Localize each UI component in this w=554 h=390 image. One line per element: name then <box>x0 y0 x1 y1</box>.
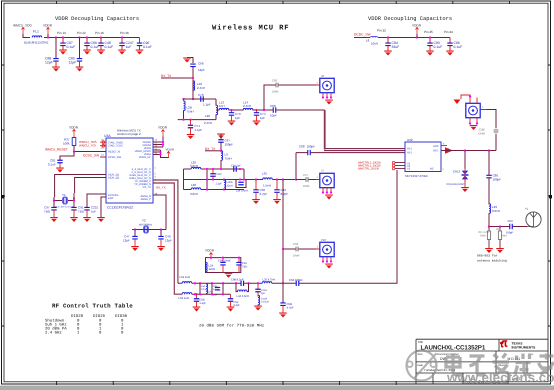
TI logo <box>500 340 508 347</box>
svg-text:1nH: 1nH <box>219 104 225 108</box>
inductor L35B <box>262 282 272 284</box>
svg-text:Pin 22: Pin 22 <box>77 31 86 35</box>
wire TX pair from MCU down <box>153 180 182 294</box>
capacitor C97 <box>53 201 55 208</box>
ground <box>325 264 333 269</box>
svg-text:100k: 100k <box>63 142 70 146</box>
svg-text:VDDR: VDDR <box>43 24 53 28</box>
ground <box>253 121 261 126</box>
crystal Y1 <box>54 197 74 201</box>
svg-text:DNM: DNM <box>272 90 279 94</box>
svg-text:Pin 26: Pin 26 <box>120 31 129 35</box>
svg-text:L35: L35 <box>262 172 267 176</box>
capacitor C30 shunt <box>255 178 257 180</box>
svg-text:2.2pF: 2.2pF <box>216 183 223 186</box>
node junction J6 branch <box>263 109 265 111</box>
wire <box>192 67 194 99</box>
capacitor C84 <box>387 38 389 44</box>
svg-text:Y2: Y2 <box>142 219 146 223</box>
svg-text:L28: L28 <box>191 183 196 187</box>
capacitor C48 <box>100 38 102 44</box>
wire reset net <box>74 146 106 152</box>
svg-text:L20: L20 <box>205 114 210 118</box>
inductor L13 <box>219 108 229 110</box>
wire to J7 <box>296 179 316 181</box>
capacitor C73 shunt <box>230 109 232 111</box>
svg-text:10uH: 10uH <box>371 42 378 46</box>
svg-text:2R2: 2R2 <box>496 228 501 231</box>
node junctions on 2.4G row <box>182 98 184 100</box>
svg-text:12pF: 12pF <box>198 68 205 72</box>
node junction <box>429 36 431 38</box>
capacitor C91 <box>71 207 76 210</box>
svg-text:100pF: 100pF <box>225 143 234 147</box>
ground <box>56 168 64 173</box>
svg-text:VDDR Decoupling Capacitors: VDDR Decoupling Capacitors <box>55 16 139 22</box>
inductor L35 <box>263 178 273 181</box>
svg-text:RF Control Truth Table: RF Control Truth Table <box>52 303 133 310</box>
svg-text:RX_TX: RX_TX <box>156 185 166 189</box>
svg-text:FL1: FL1 <box>33 30 39 34</box>
ground <box>187 134 195 139</box>
svg-text:0.1uF: 0.1uF <box>434 45 443 49</box>
wire sub1 mid vertical <box>206 169 208 190</box>
svg-text:0.1uF: 0.1uF <box>454 45 463 49</box>
svg-text:Y1: Y1 <box>62 193 66 197</box>
TVS diode CR13 <box>464 151 466 171</box>
svg-text:C70: C70 <box>198 93 204 97</box>
svg-text:Pin 16: Pin 16 <box>95 31 104 35</box>
svg-text:Document Number: Document Number <box>437 353 459 356</box>
svg-text:4pF: 4pF <box>261 292 266 295</box>
svg-text:100pF: 100pF <box>307 145 316 149</box>
off-page RFC arrow <box>445 147 453 154</box>
bottom gray scan strip <box>0 386 554 390</box>
ground <box>279 313 287 318</box>
svg-text:DIO28: DIO28 <box>71 314 84 319</box>
inductor L34 <box>238 290 248 292</box>
connector J5 SMA <box>481 109 487 111</box>
capacitor C92B shunt <box>230 294 232 299</box>
svg-text:1.1pF: 1.1pF <box>195 128 203 132</box>
title block outline <box>416 339 548 384</box>
ground <box>485 248 493 253</box>
svg-text:L31 1uH: L31 1uH <box>180 275 191 279</box>
frame tick marks top <box>57 1 510 4</box>
svg-text:L31 1uH: L31 1uH <box>179 296 190 300</box>
svg-text:LAUNCHXL-CC1352P1: LAUNCHXL-CC1352P1 <box>421 345 486 352</box>
inductor L10 <box>192 78 194 81</box>
wire right edge <box>243 169 245 180</box>
svg-text:12nH: 12nH <box>209 267 216 271</box>
inductor FL1 <box>32 36 42 38</box>
svg-text:100pF: 100pF <box>493 178 502 182</box>
svg-text:DCDC_SW: DCDC_SW <box>83 153 99 157</box>
svg-text:0.15uH: 0.15uH <box>261 301 269 304</box>
svg-text:10pF: 10pF <box>270 114 277 118</box>
pin stubs J5 top <box>461 95 477 103</box>
svg-text:C59: C59 <box>508 219 514 223</box>
svg-text:section on page 2: section on page 2 <box>117 132 141 136</box>
svg-text:1uF: 1uF <box>126 45 132 49</box>
svg-text:3.6nH: 3.6nH <box>190 192 198 196</box>
svg-text:Pin 33: Pin 33 <box>377 29 386 33</box>
svg-text:WMCU_TCK: WMCU_TCK <box>79 144 96 148</box>
ground <box>83 50 91 55</box>
svg-text:DCDC_SW: DCDC_SW <box>354 33 372 37</box>
ground <box>426 51 434 56</box>
wire PA cell box edges <box>200 283 223 294</box>
svg-text:C57: C57 <box>303 173 309 177</box>
watermark chinese characters <box>446 354 554 376</box>
svg-text:V1: V1 <box>407 168 411 171</box>
svg-text:48.000MHz: 48.000MHz <box>139 224 153 227</box>
pin stub HOP <box>441 145 447 147</box>
capacitor C67 <box>218 140 223 143</box>
svg-text:C66: C66 <box>198 62 204 66</box>
wire down to sub1 row <box>295 153 297 180</box>
capacitor C247 <box>121 38 123 44</box>
svg-text:75nH: 75nH <box>187 110 194 114</box>
capacitor C74 shunt <box>255 109 257 111</box>
svg-text:Pin 45: Pin 45 <box>424 30 433 34</box>
svg-text:1uF: 1uF <box>91 210 96 214</box>
capacitor C57 DNM <box>306 177 308 182</box>
svg-text:DNM: DNM <box>303 184 310 188</box>
svg-text:1.1pF: 1.1pF <box>203 103 211 107</box>
svg-text:VDDR: VDDR <box>205 249 215 253</box>
svg-text:12pF: 12pF <box>45 61 53 65</box>
capacitor C85 <box>79 38 81 59</box>
svg-text:1pF: 1pF <box>235 116 240 120</box>
svg-text:2.7pF: 2.7pF <box>260 192 268 196</box>
svg-text:12pF: 12pF <box>69 61 77 65</box>
connector J7 SMA <box>316 179 320 181</box>
svg-text:0.1uF: 0.1uF <box>67 45 76 49</box>
ground <box>59 50 67 55</box>
node junction PA out <box>282 282 284 284</box>
wire DCOUPL <box>87 194 106 207</box>
resistor R21 DNM <box>488 227 490 232</box>
node junctions on bus <box>47 36 49 38</box>
inductor L24 on left edge <box>206 262 208 272</box>
svg-text:27nH: 27nH <box>201 288 207 291</box>
svg-text:Title: Title <box>418 340 424 344</box>
wire RFC to antenna net <box>441 150 496 152</box>
svg-text:Date: Date <box>418 364 424 367</box>
svg-text:P10: P10 <box>321 238 326 242</box>
svg-text:VDDR_RF: VDDR_RF <box>139 156 152 159</box>
ground <box>470 125 478 130</box>
node junction <box>192 77 194 79</box>
ground small left <box>454 100 461 105</box>
svg-text:SKY13317-373LF: SKY13317-373LF <box>405 174 428 178</box>
svg-text:L35 4.7nH: L35 4.7nH <box>263 279 275 282</box>
node junction <box>387 36 389 38</box>
capacitor C47 <box>134 230 136 237</box>
capacitor C66 <box>190 64 195 67</box>
capacitor C58 DNM <box>296 247 298 252</box>
capacitor C81 <box>57 160 62 163</box>
ground <box>157 246 165 251</box>
svg-text:4.7pF: 4.7pF <box>287 306 294 310</box>
ground <box>193 307 201 312</box>
capacitor C221 <box>84 207 89 210</box>
svg-text:J6: J6 <box>321 74 324 78</box>
svg-text:L34 3.6nH: L34 3.6nH <box>236 190 248 193</box>
wire C88 row <box>296 152 405 154</box>
capacitor C8B shunt <box>195 293 197 295</box>
wire to P10 <box>283 248 316 250</box>
wire X32K_Q2 <box>75 178 106 194</box>
svg-text:WMCTRL_DIO30: WMCTRL_DIO30 <box>358 168 380 171</box>
inductor L2B vertical <box>183 99 185 101</box>
svg-text:2.4 GHz: 2.4 GHz <box>45 331 62 336</box>
svg-text:2.4nH: 2.4nH <box>243 104 251 108</box>
pin stubs P10 <box>323 257 331 262</box>
wire sub1 row1 <box>184 168 245 170</box>
wire sub1 row2 <box>184 179 297 181</box>
capacitor C4B DNM <box>494 130 499 132</box>
ground <box>70 217 78 222</box>
capacitor C71 below rail <box>182 118 184 120</box>
svg-text:2.4nH: 2.4nH <box>204 121 212 125</box>
capacitor C68 series <box>273 107 276 112</box>
svg-text:20 dBm SOM for 770-930 MHz: 20 dBm SOM for 770-930 MHz <box>199 323 265 328</box>
svg-text:Wireless MCU RF: Wireless MCU RF <box>212 24 289 33</box>
svg-text:12pF: 12pF <box>123 239 130 243</box>
capacitor C13A chain <box>257 283 259 289</box>
svg-text:M D 141: M D 141 <box>508 357 521 361</box>
inductor L28 row3 <box>191 188 201 190</box>
pin stubs V1 V2 V3 <box>395 163 405 169</box>
svg-text:0.1uF: 0.1uF <box>143 45 152 49</box>
svg-text:DIO30: DIO30 <box>115 314 128 319</box>
svg-text:Sheet: Sheet <box>498 364 505 367</box>
svg-text:33uF: 33uF <box>392 45 400 49</box>
svg-text:RF2: RF2 <box>407 152 412 155</box>
svg-text:RX_TX: RX_TX <box>161 74 172 78</box>
capacitor C88 100pF <box>308 150 311 155</box>
capacitor C59 <box>510 224 513 229</box>
wire long vertical to PA row <box>396 170 399 283</box>
inductor L8 <box>371 36 378 37</box>
svg-text:DNM: DNM <box>501 235 507 238</box>
svg-text:WMCU_RESET: WMCU_RESET <box>45 148 68 152</box>
power VDDR right of MCU (VDDR_RF) <box>153 150 169 158</box>
svg-text:WMCU_VDD: WMCU_VDD <box>13 24 32 28</box>
inductor L20 on right edge <box>215 99 217 106</box>
svg-text:8.2pF: 8.2pF <box>281 192 289 196</box>
capacitor C83 <box>429 38 431 44</box>
wire antenna row <box>489 226 527 228</box>
svg-text:VDDR: VDDR <box>412 24 422 28</box>
pin stubs J6 <box>323 93 331 98</box>
svg-text:C107: C107 <box>216 173 223 176</box>
node junction L9 feed <box>220 168 222 170</box>
resistor R37 100k <box>73 136 75 138</box>
svg-text:VDDR: VDDR <box>166 147 175 151</box>
svg-text:NC: NC <box>430 168 434 171</box>
ground above C67 <box>217 134 225 139</box>
wire small loop L34 <box>236 180 246 188</box>
power VDDR right of MCU (VDDS) <box>153 136 163 147</box>
ground <box>325 100 333 105</box>
ground <box>228 121 236 126</box>
capacitor C3A in cell <box>215 287 220 290</box>
svg-text:L34 3.6nH: L34 3.6nH <box>237 295 249 298</box>
frame tick marks bottom <box>57 381 397 385</box>
capacitor C86 <box>449 38 451 44</box>
svg-text:TBD: TBD <box>78 210 85 214</box>
ground <box>325 195 333 200</box>
inductor L31 <box>182 282 192 284</box>
inductor L29 <box>489 204 491 214</box>
svg-text:VDDR: VDDR <box>158 125 168 129</box>
capacitor C92 <box>238 258 240 263</box>
wire PA row B <box>182 293 230 295</box>
wire X32K_Q1 <box>55 175 106 198</box>
connector J6 SMA <box>316 84 320 86</box>
svg-text:RX_TX: RX_TX <box>205 147 216 151</box>
frame tick marks right <box>548 65 551 326</box>
svg-text:J7: J7 <box>321 169 324 173</box>
connector P10 SMA <box>316 248 320 250</box>
capacitor C49 <box>160 230 162 237</box>
inductor L9 <box>221 151 223 161</box>
ground <box>273 199 281 204</box>
wire sub1 left edge <box>183 169 185 190</box>
inductor L14 <box>243 108 253 110</box>
svg-text:0.9nH: 0.9nH <box>492 209 500 213</box>
wire to J6 <box>264 85 316 110</box>
svg-text:8.4pF: 8.4pF <box>234 304 241 307</box>
svg-text:VDDR: VDDR <box>69 125 79 129</box>
wire EGP ground <box>101 197 106 217</box>
pin numbers <box>101 138 158 195</box>
wire VDDR box <box>206 258 241 273</box>
svg-text:DNM: DNM <box>478 132 485 136</box>
svg-text:EGP: EGP <box>108 197 114 200</box>
wire 2.4G output row <box>216 109 325 111</box>
ground <box>50 217 58 222</box>
svg-text:DCDC_SW: DCDC_SW <box>108 156 122 159</box>
capacitor C5B below <box>282 283 284 303</box>
capacitor C70 series <box>201 96 204 101</box>
svg-text:RESET_N: RESET_N <box>108 151 120 154</box>
svg-text:1.5nH: 1.5nH <box>263 184 271 188</box>
inductor C12B chain <box>258 295 260 305</box>
capacitor C87 <box>62 38 64 44</box>
svg-text:A1: A1 <box>525 208 529 211</box>
capacitor C90 <box>139 38 141 44</box>
capacitor C107 between rows <box>212 168 214 170</box>
svg-text:C88: C88 <box>299 145 305 149</box>
wire P10 vertical <box>282 180 284 284</box>
capacitor C89 <box>86 38 88 44</box>
ground <box>52 67 60 72</box>
inductor L30A between rows <box>223 178 225 180</box>
ground <box>254 306 262 311</box>
pin stubs left <box>100 142 106 146</box>
svg-text:2.4nH: 2.4nH <box>197 86 205 90</box>
ground above C66 <box>187 58 193 64</box>
pin stubs J5 bottom <box>470 118 477 124</box>
ground <box>384 51 392 56</box>
wire PA row A <box>178 282 397 284</box>
ground <box>252 199 260 204</box>
svg-text:0.1uF: 0.1uF <box>91 45 100 49</box>
node junction sub1 out <box>295 178 297 180</box>
svg-text:Pin 13: Pin 13 <box>57 31 66 35</box>
svg-text:22nH: 22nH <box>227 185 233 188</box>
svg-text:TPD1E04U04DPY: TPD1E04U04DPY <box>446 183 466 186</box>
svg-text:antenna matching: antenna matching <box>477 258 507 262</box>
svg-text:12pF: 12pF <box>165 239 172 243</box>
svg-text:2.4pF: 2.4pF <box>213 288 220 291</box>
wire dcdc bus <box>354 37 450 39</box>
svg-text:www.elecfans.com: www.elecfans.com <box>446 370 554 385</box>
ground <box>83 217 91 222</box>
svg-text:0.1uF: 0.1uF <box>105 45 114 49</box>
ground <box>446 51 454 56</box>
node junctions <box>134 228 136 230</box>
capacitor C60 DNM <box>276 83 278 88</box>
ground <box>118 50 126 55</box>
svg-text:JTAG_TCKC: JTAG_TCKC <box>108 145 123 148</box>
svg-text:X32K_Q2: X32K_Q2 <box>108 177 120 180</box>
inductor L31B <box>182 293 192 295</box>
ground inside box <box>225 273 233 278</box>
svg-text:TBD: TBD <box>242 266 247 269</box>
svg-text:C68: C68 <box>270 104 276 108</box>
svg-text:0.1uF: 0.1uF <box>48 163 56 167</box>
svg-text:DNM: DNM <box>293 254 300 258</box>
node junction reset <box>73 150 75 152</box>
svg-text:2.4pF: 2.4pF <box>200 302 207 305</box>
svg-text:75nH: 75nH <box>225 157 232 161</box>
wire J5 branch <box>487 110 497 151</box>
svg-text:TBD: TBD <box>44 210 51 214</box>
svg-text:Pin 44: Pin 44 <box>444 30 453 34</box>
pin stubs J7 <box>323 188 331 193</box>
svg-text:ANNA_P: ANNA_P <box>141 198 152 201</box>
capacitor C46 shunt <box>276 178 278 180</box>
wire ANNA to crystal Y2 <box>132 195 166 230</box>
node junctions <box>53 199 55 201</box>
ground <box>461 187 469 192</box>
wire rx_tx stub <box>161 77 193 79</box>
svg-text:CR13: CR13 <box>453 170 461 174</box>
svg-text:VDDR Decoupling Capacitors: VDDR Decoupling Capacitors <box>368 16 452 22</box>
svg-text:BLM18HE152SN1: BLM18HE152SN1 <box>24 41 49 45</box>
svg-text:RFC: RFC <box>433 150 438 153</box>
svg-text:Size: Size <box>418 353 424 356</box>
svg-text:C98 8.2pF: C98 8.2pF <box>231 279 244 282</box>
wire vddr bus <box>23 34 140 38</box>
wire 2.4G pair to U32 <box>324 110 326 150</box>
wire to C81 <box>60 152 74 161</box>
svg-text:L8: L8 <box>366 39 370 43</box>
inductor L5A in cell <box>206 284 208 294</box>
capacitor C88 <box>55 38 57 59</box>
ground <box>97 217 105 222</box>
svg-text:U3A: U3A <box>104 134 111 138</box>
wire sub1 row3 <box>184 189 245 191</box>
svg-text:1pF: 1pF <box>260 116 265 120</box>
ground <box>496 248 504 253</box>
svg-text:RX_TX: RX_TX <box>143 186 152 189</box>
